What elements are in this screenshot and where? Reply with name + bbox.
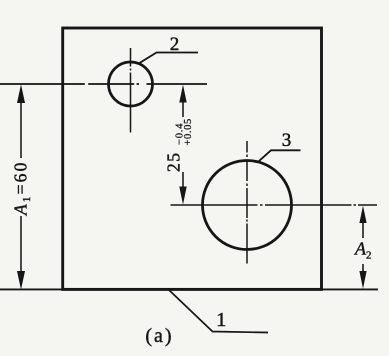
svg-text:A1=60: A1=60 [11,160,34,216]
bottom extension line left [0,288,62,290]
centerline vertical through hole 2 [130,48,132,133]
arrowhead A1 bottom [17,271,25,290]
centerline horizontal through hole 2 [0,83,207,85]
plate outline (part 1) [63,28,322,289]
leader line for label 2 [138,53,198,64]
arrowhead 25 top [179,85,186,103]
leader line for label 1 [169,290,268,333]
svg-text:2: 2 [170,34,180,55]
leader line for label 3 [259,150,301,161]
centerline vertical through hole 3 [246,141,248,264]
dimension line A1 [20,90,22,284]
svg-text:25: 25 [164,152,184,173]
dimension line 25 [182,90,184,199]
svg-text:3: 3 [282,130,292,151]
svg-text:(a): (a) [145,325,173,347]
arrowhead A2 bottom [359,271,366,289]
svg-text:1: 1 [216,309,226,331]
arrowhead 25 bottom [179,187,186,205]
bottom extension line right [322,288,378,290]
hole 3 circle [203,161,292,250]
arrowhead A1 top [17,84,25,103]
hole 2 circle [109,62,153,106]
dimension line A2 [362,211,364,283]
arrowhead A2 top [359,206,366,223]
centerline horizontal through hole 3 [171,204,378,206]
svg-text:+0.05: +0.05 [183,118,194,145]
